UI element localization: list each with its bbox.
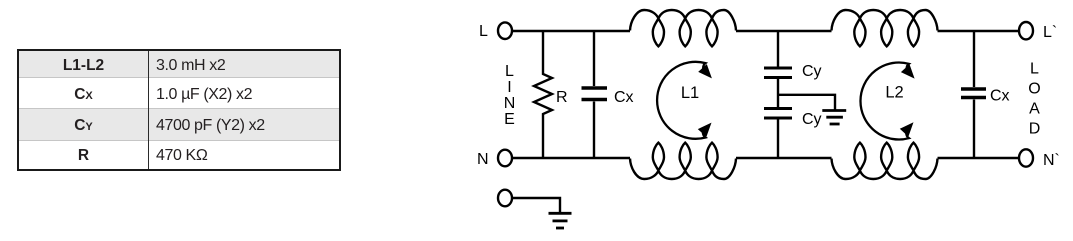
terminal L' [1019,22,1033,39]
svg-text:L2: L2 [885,84,903,102]
svg-text:L: L [479,23,488,40]
table column divider [148,51,149,169]
svg-text:Cy: Cy [802,111,822,128]
svg-text:A: A [1029,101,1040,118]
capacitor Cx left [593,31,595,86]
table row Cy [19,109,339,141]
table row L1-L2 [19,51,339,78]
svg-text:N: N [504,95,516,112]
resistor R [534,31,552,158]
svg-text:N`: N` [1043,152,1060,169]
svg-text:R: R [556,89,568,106]
wire bottom rail middle [736,157,832,159]
table row R [19,141,339,168]
svg-text:L: L [505,63,514,80]
inductor L2 top winding [832,10,938,46]
terminal N [498,150,512,167]
ground middle [822,109,846,112]
svg-text:I: I [507,79,511,96]
svg-text:E: E [504,111,515,128]
component value table [17,49,341,171]
svg-text:L: L [1030,61,1039,78]
svg-text:Cy: Cy [802,63,822,80]
svg-text:N: N [477,151,489,168]
capacitor Cy upper [764,67,792,70]
table row Cx [19,78,339,109]
capacitor Cx right [973,31,975,87]
terminal L [498,22,512,39]
inductor L1 bottom winding [630,143,736,179]
ground bottom-left [549,212,572,215]
node Cy branch [777,31,779,67]
wire top rail right [938,30,1020,32]
svg-text:L`: L` [1043,24,1057,41]
wire bottom rail left [512,157,630,159]
flux arrow L2 [860,62,908,139]
inductor L2 bottom winding [832,143,938,179]
svg-text:O: O [1028,81,1040,98]
terminal N' [1019,149,1033,166]
flux arrow L1 [657,62,705,139]
svg-text:L1: L1 [681,84,699,102]
inductor L1 top winding [630,10,736,46]
wire Cy midpoint to ground [778,95,835,110]
wire bottom rail right [938,157,1020,159]
svg-text:Cx: Cx [614,89,634,106]
wire top rail middle [736,30,832,32]
terminal GND [498,190,512,207]
svg-text:Cx: Cx [990,88,1010,105]
capacitor Cy lower [764,107,792,110]
wire ground terminal [512,198,560,212]
wire top rail left [512,30,630,32]
svg-text:D: D [1029,121,1041,138]
